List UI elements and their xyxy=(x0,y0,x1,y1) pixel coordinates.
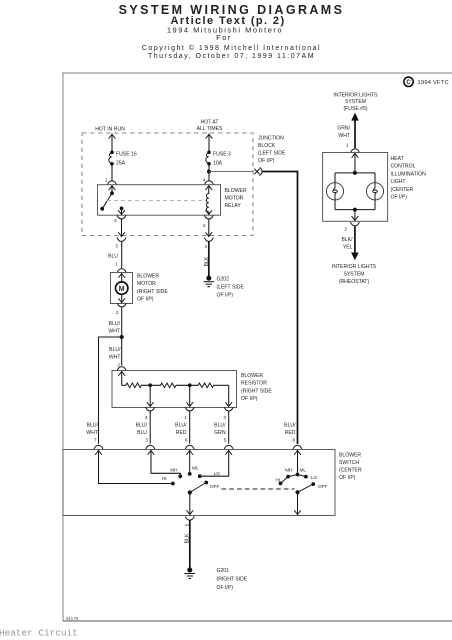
svg-text:RED: RED xyxy=(176,430,187,436)
svg-text:OFF: OFF xyxy=(210,484,220,489)
svg-text:LO: LO xyxy=(214,471,221,476)
svg-text:4: 4 xyxy=(204,244,207,249)
svg-text:BLU: BLU xyxy=(137,430,147,436)
svg-text:3: 3 xyxy=(223,415,226,420)
svg-text:(FUSE #5): (FUSE #5) xyxy=(343,106,367,112)
relay pin3 exit xyxy=(114,216,126,242)
svg-text:OF I/P): OF I/P) xyxy=(217,293,234,299)
illumination light label xyxy=(391,156,427,201)
switch wire ML xyxy=(187,451,200,476)
lamp wiring top xyxy=(335,154,375,183)
wire BLK to G201 xyxy=(185,521,191,569)
svg-text:1: 1 xyxy=(115,262,118,267)
svg-text:INTERIOR LIGHTS: INTERIOR LIGHTS xyxy=(332,264,377,270)
relay K1 box xyxy=(98,185,221,216)
switch right OFF contact xyxy=(311,482,327,489)
svg-text:ALL TIMES: ALL TIMES xyxy=(197,126,223,132)
svg-text:5: 5 xyxy=(224,438,227,443)
svg-text:GRN/: GRN/ xyxy=(337,126,350,132)
svg-text:BLU/: BLU/ xyxy=(214,423,226,429)
svg-text:BLOWER: BLOWER xyxy=(137,274,159,280)
svg-text:Heater Circuit: Heater Circuit xyxy=(0,628,78,639)
wire junction to connector xyxy=(209,171,253,173)
svg-text:BLU/: BLU/ xyxy=(109,347,121,353)
relay label xyxy=(225,188,247,209)
svg-text:SYSTEM: SYSTEM xyxy=(345,99,366,105)
svg-text:G201: G201 xyxy=(217,568,230,574)
svg-text:Thursday, October 07, 1999 11: Thursday, October 07, 1999 11:07AM xyxy=(148,53,315,60)
blower motor M1 box xyxy=(111,273,133,304)
svg-text:HOT IN RUN: HOT IN RUN xyxy=(95,127,125,133)
svg-text:3: 3 xyxy=(114,218,117,223)
wire fuse16 feed xyxy=(109,134,115,153)
switch wire MH xyxy=(148,451,182,479)
resistor pin4 exit xyxy=(145,408,155,444)
switch linkage dashed xyxy=(222,488,295,490)
arrow to rheostat xyxy=(351,226,359,260)
junction block label xyxy=(258,136,286,165)
svg-text:3: 3 xyxy=(115,244,118,249)
svg-text:CONTROL: CONTROL xyxy=(391,164,416,170)
svg-text:(LEFT SIDE: (LEFT SIDE xyxy=(258,151,286,157)
wire BLK/YEL xyxy=(341,237,353,251)
page frame rule xyxy=(62,73,452,621)
svg-text:JUNCTION: JUNCTION xyxy=(258,136,284,142)
svg-text:INTERIOR LIGHTS: INTERIOR LIGHTS xyxy=(333,92,378,98)
svg-text:OF I/P): OF I/P) xyxy=(217,585,234,591)
svg-text:WHT: WHT xyxy=(109,355,121,361)
motor pin2 exit xyxy=(116,304,126,338)
blower resistor box xyxy=(112,371,237,408)
switch wire LO xyxy=(198,451,232,479)
svg-text:2: 2 xyxy=(203,223,206,228)
ground G201 xyxy=(185,568,248,592)
node fuse3 junction xyxy=(203,164,213,184)
svg-text:WHT: WHT xyxy=(108,329,120,335)
arrow to interior lights xyxy=(351,113,359,149)
svg-text:(RIGHT SIDE: (RIGHT SIDE xyxy=(217,577,248,583)
wire BLU/WHT to resistor xyxy=(109,337,126,370)
switch label xyxy=(339,453,362,482)
svg-text:BLOWER: BLOWER xyxy=(241,373,263,379)
svg-text:GRN: GRN xyxy=(214,430,226,436)
wire BLU/RED switch feed xyxy=(284,423,302,449)
svg-text:MH: MH xyxy=(285,468,292,473)
svg-text:RESISTOR: RESISTOR xyxy=(241,381,267,387)
svg-text:OFF: OFF xyxy=(318,484,328,489)
svg-text:HI: HI xyxy=(162,476,167,481)
svg-text:2: 2 xyxy=(344,226,347,231)
svg-text:M: M xyxy=(119,286,125,293)
svg-text:(RIGHT SIDE: (RIGHT SIDE xyxy=(241,388,272,394)
svg-text:4: 4 xyxy=(203,178,206,183)
svg-text:RELAY: RELAY xyxy=(225,203,242,209)
svg-text:SWITCH: SWITCH xyxy=(339,460,359,466)
svg-text:3: 3 xyxy=(145,438,148,443)
svg-text:FUSE 3: FUSE 3 xyxy=(213,152,231,158)
switch wire HI pin7 xyxy=(95,451,174,486)
svg-text:SYSTEM: SYSTEM xyxy=(344,271,365,277)
svg-text:6: 6 xyxy=(185,438,188,443)
wire fuse16 to relay pin1 xyxy=(105,164,116,184)
lamp wiring bottom xyxy=(335,200,375,221)
lamp L1 xyxy=(326,183,343,200)
svg-text:BLU/: BLU/ xyxy=(109,321,121,327)
svg-text:(CENTER: (CENTER xyxy=(339,468,362,474)
svg-text:FUSE 16: FUSE 16 xyxy=(116,152,137,158)
resistor pin3 exit xyxy=(223,408,233,444)
svg-text:(LEFT SIDE: (LEFT SIDE xyxy=(217,285,245,291)
svg-text:1: 1 xyxy=(105,178,108,183)
fuse F3 10A xyxy=(206,151,231,167)
svg-text:C: C xyxy=(406,79,411,86)
svg-text:LO: LO xyxy=(311,475,318,480)
svg-text:BLOWER: BLOWER xyxy=(225,188,247,194)
svg-text:LIGHT: LIGHT xyxy=(391,179,406,185)
svg-text:10A: 10A xyxy=(213,161,223,167)
svg-text:(CENTER: (CENTER xyxy=(391,187,414,193)
svg-text:1994 VFTC: 1994 VFTC xyxy=(418,80,449,86)
wire GRN/WHT xyxy=(337,126,359,153)
relay pin2 exit xyxy=(203,216,213,242)
wire BLU/BLU xyxy=(136,423,155,449)
svg-text:8: 8 xyxy=(292,438,295,443)
svg-text:Copyright © 1998 Mitchell Inte: Copyright © 1998 Mitchell International xyxy=(142,44,321,52)
fuse F16 25A xyxy=(109,151,137,167)
svg-text:BLU/: BLU/ xyxy=(87,423,99,429)
node motor junction xyxy=(120,335,124,339)
svg-text:ML: ML xyxy=(300,468,307,473)
svg-text:MH: MH xyxy=(170,468,177,473)
svg-text:4: 4 xyxy=(145,415,148,420)
svg-text:For: For xyxy=(216,33,232,42)
resistor pin1 exit xyxy=(184,408,194,444)
wire BLK to G202 xyxy=(204,241,210,276)
svg-text:RED: RED xyxy=(285,430,296,436)
interior lights rheostat label xyxy=(332,264,377,285)
svg-text:OF I/P): OF I/P) xyxy=(339,475,356,481)
svg-text:BLU: BLU xyxy=(108,254,118,260)
svg-text:MOTOR: MOTOR xyxy=(137,281,156,287)
svg-text:5: 5 xyxy=(185,523,190,526)
svg-text:ILLUMINATION: ILLUMINATION xyxy=(391,171,427,177)
svg-text:MOTOR: MOTOR xyxy=(225,196,244,202)
svg-text:(RHEOSTAT): (RHEOSTAT) xyxy=(339,279,370,285)
relay coil xyxy=(206,186,212,215)
wire BLU/GRN xyxy=(214,423,233,449)
svg-text:1: 1 xyxy=(346,142,349,147)
header title block xyxy=(119,3,345,60)
junction block dashed box xyxy=(82,133,253,236)
wire BLU/WHT motor out xyxy=(108,321,120,335)
svg-text:1: 1 xyxy=(184,415,187,420)
relay linkage dashed xyxy=(107,200,207,202)
svg-text:HOT AT: HOT AT xyxy=(201,119,219,125)
svg-text:ML: ML xyxy=(192,466,199,471)
svg-text:(RIGHT SIDE: (RIGHT SIDE xyxy=(137,289,168,295)
switch ground exit xyxy=(185,517,195,527)
resistor network xyxy=(119,372,232,407)
svg-text:G202: G202 xyxy=(217,277,230,283)
switch right arm xyxy=(294,484,313,514)
svg-text:2: 2 xyxy=(116,310,119,315)
svg-text:7: 7 xyxy=(94,438,97,443)
wire BLU relay to motor xyxy=(108,241,126,272)
switch left OFF contact xyxy=(204,481,219,489)
svg-text:WHT: WHT xyxy=(338,133,350,139)
interior lights system fuse5 label xyxy=(333,92,378,112)
svg-text:BLOWER: BLOWER xyxy=(339,453,361,459)
svg-text:OF I/P): OF I/P) xyxy=(137,297,154,303)
switch wire pin8 ML feed xyxy=(285,451,306,477)
heat control illumination light box xyxy=(323,153,388,222)
wire branch to switch pin7 xyxy=(86,337,121,449)
wire fuse3 feed xyxy=(206,134,212,153)
svg-text:OF I/P): OF I/P) xyxy=(391,195,408,201)
wire BLU/RED xyxy=(175,423,194,449)
ground G202 xyxy=(204,276,245,299)
svg-text:YEL: YEL xyxy=(343,245,353,251)
relay switch contacts xyxy=(100,186,124,215)
svg-text:BLU/: BLU/ xyxy=(136,423,148,429)
switch left arm xyxy=(187,483,207,515)
svg-text:BLU/: BLU/ xyxy=(175,423,187,429)
svg-text:25A: 25A xyxy=(116,161,126,167)
wire connector to blower switch pin8 xyxy=(263,172,298,445)
lamp box pin2 exit xyxy=(344,222,359,231)
svg-text:HEAT: HEAT xyxy=(391,156,404,162)
switch right contact chain xyxy=(275,475,317,486)
svg-text:BLOCK: BLOCK xyxy=(258,143,276,149)
copyright 1994 VFTC xyxy=(404,77,449,86)
blower switch S1 box xyxy=(63,450,335,516)
connector X xyxy=(255,168,263,176)
motor symbol xyxy=(116,274,128,303)
svg-text:BLU/: BLU/ xyxy=(284,423,296,429)
svg-text:WHT: WHT xyxy=(86,430,98,436)
svg-text:HI: HI xyxy=(275,477,280,482)
svg-text:BLK/: BLK/ xyxy=(341,237,353,243)
motor label xyxy=(137,274,168,303)
svg-text:OF I/P): OF I/P) xyxy=(258,158,275,164)
svg-text:OF I/P): OF I/P) xyxy=(241,396,258,402)
node HOT AT ALL TIMES xyxy=(197,119,223,131)
lamp L2 xyxy=(366,183,383,200)
svg-text:44175: 44175 xyxy=(66,616,79,621)
resistor label xyxy=(241,373,272,402)
